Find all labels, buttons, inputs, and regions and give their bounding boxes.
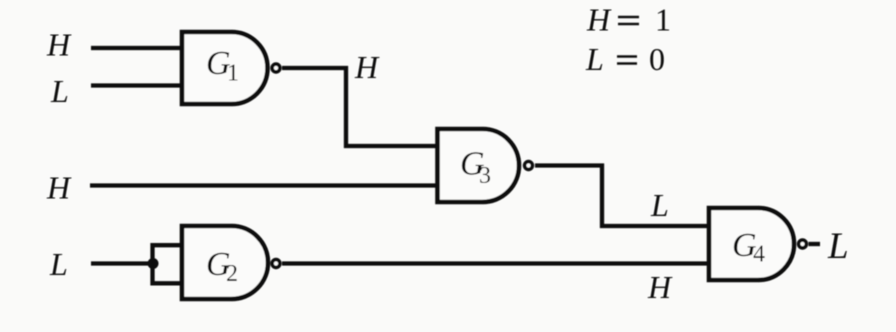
svg-text:L: L bbox=[650, 187, 669, 223]
svg-text:L: L bbox=[50, 73, 69, 109]
svg-text:2: 2 bbox=[226, 261, 238, 287]
svg-text:H: H bbox=[647, 269, 673, 305]
svg-text:L: L bbox=[49, 246, 68, 282]
svg-text:3: 3 bbox=[479, 163, 491, 189]
svg-text:1: 1 bbox=[227, 61, 239, 87]
svg-text:H: H bbox=[46, 170, 72, 206]
svg-text:L: L bbox=[827, 226, 849, 267]
svg-text:H: H bbox=[46, 27, 72, 63]
svg-text:H: H bbox=[586, 2, 612, 38]
svg-text:4: 4 bbox=[753, 242, 765, 268]
svg-text:0: 0 bbox=[649, 41, 665, 77]
svg-text:1: 1 bbox=[655, 2, 671, 38]
svg-text:L: L bbox=[585, 41, 604, 77]
svg-text:H: H bbox=[354, 49, 380, 85]
